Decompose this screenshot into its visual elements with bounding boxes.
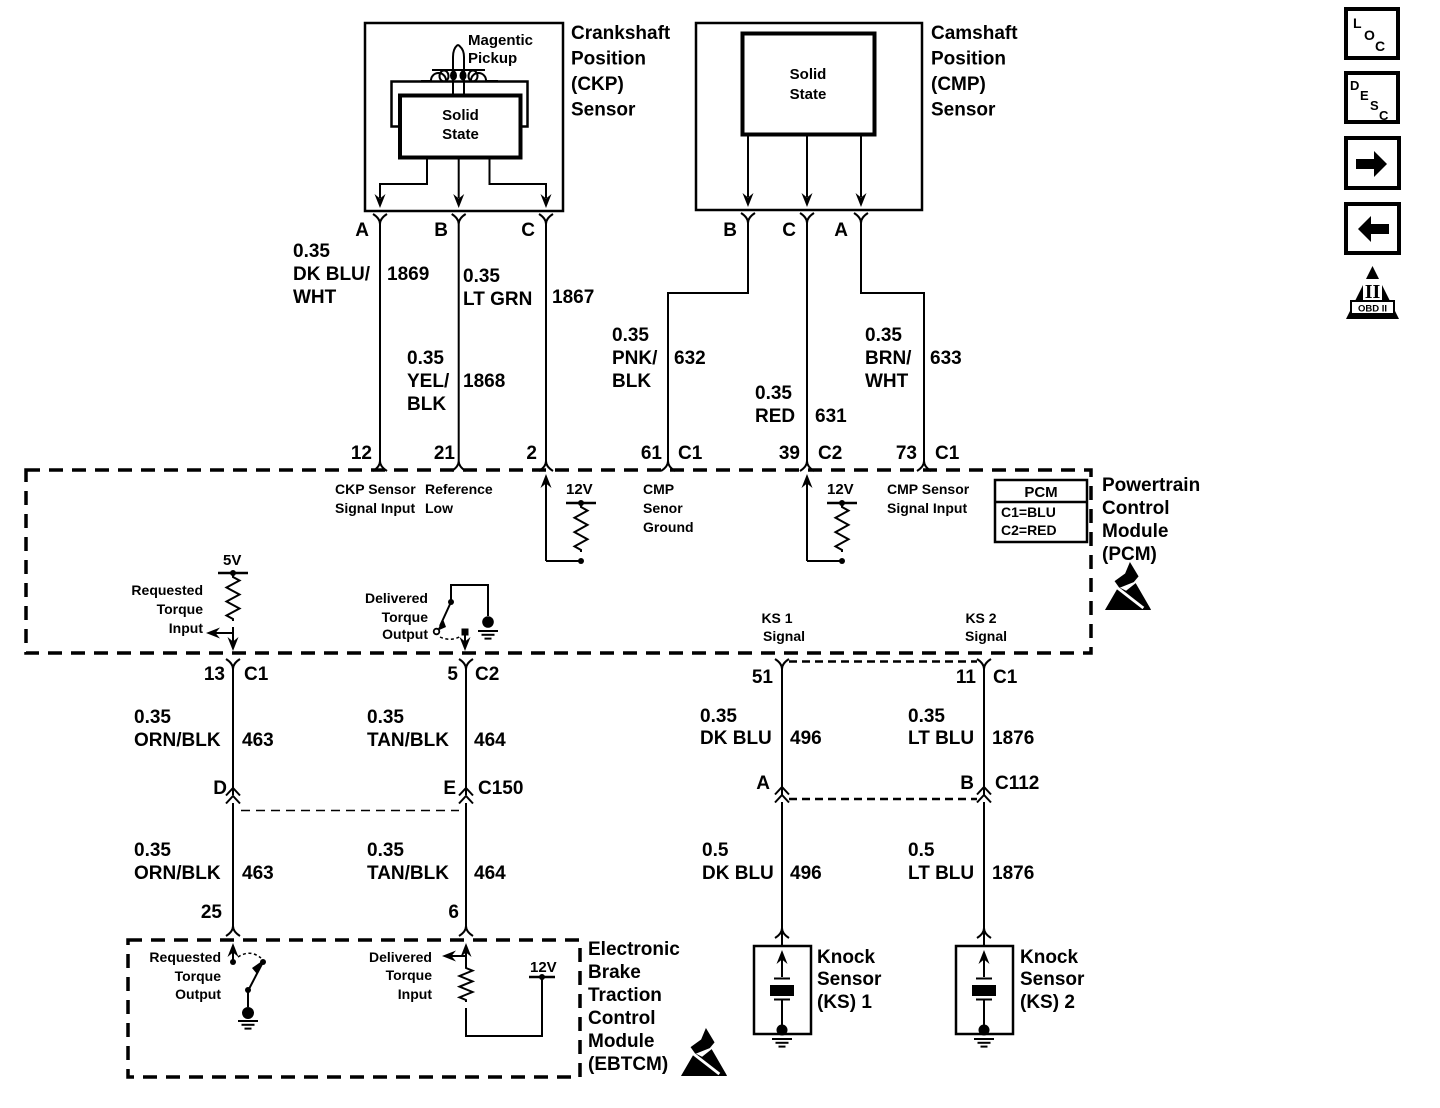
svg-text:(CMP): (CMP) [931, 74, 986, 95]
svg-text:73: 73 [896, 443, 917, 464]
wire 496 DK BLU upper [781, 669, 783, 795]
svg-text:KS 2: KS 2 [965, 610, 996, 626]
svg-text:Torque: Torque [157, 601, 204, 617]
Knock Sensor KS2 box [956, 946, 1013, 1034]
svg-text:B: B [434, 220, 448, 241]
svg-text:39: 39 [779, 443, 800, 464]
wire 1869 DK BLU/WHT [379, 240, 381, 461]
svg-text:12V: 12V [566, 481, 593, 498]
svg-text:1876: 1876 [992, 728, 1034, 749]
svg-text:(KS) 1: (KS) 1 [817, 992, 872, 1013]
svg-text:WHT: WHT [865, 371, 909, 392]
connector C150 dashed line [241, 810, 459, 812]
svg-text:DK BLU: DK BLU [700, 728, 772, 749]
svg-text:Input: Input [398, 986, 433, 1002]
svg-text:A: A [355, 220, 369, 241]
pin 21 [452, 461, 466, 471]
svg-text:Module: Module [588, 1031, 655, 1052]
PCM connector legend box [995, 480, 1087, 542]
svg-text:Delivered: Delivered [369, 949, 432, 965]
svg-text:II: II [1365, 281, 1381, 303]
svg-text:0.35: 0.35 [463, 266, 500, 287]
svg-text:0.35: 0.35 [367, 707, 404, 728]
svg-text:BRN/: BRN/ [865, 348, 912, 369]
svg-text:Powertrain: Powertrain [1102, 475, 1200, 496]
svg-text:ORN/BLK: ORN/BLK [134, 730, 221, 751]
svg-text:(EBTCM): (EBTCM) [588, 1054, 668, 1075]
svg-text:C: C [1375, 38, 1385, 54]
CKP terminal B [452, 214, 466, 224]
svg-text:State: State [790, 86, 827, 103]
svg-text:LT BLU: LT BLU [908, 728, 974, 749]
svg-text:0.35: 0.35 [407, 348, 444, 369]
svg-text:C2: C2 [475, 664, 499, 685]
CKP terminal C [539, 214, 553, 224]
svg-text:TAN/BLK: TAN/BLK [367, 863, 449, 884]
CMP internal wire to terminal C [806, 134, 808, 197]
svg-text:1876: 1876 [992, 863, 1034, 884]
svg-text:633: 633 [930, 348, 962, 369]
svg-text:0.35: 0.35 [755, 383, 792, 404]
requested torque input arrow [215, 632, 233, 634]
LOC button [1346, 9, 1398, 58]
pin 13 C1 [226, 659, 240, 669]
svg-text:C2=RED: C2=RED [1001, 522, 1057, 538]
svg-text:2: 2 [526, 443, 537, 464]
svg-text:0.5: 0.5 [702, 840, 729, 861]
CKP terminal A [373, 214, 387, 224]
svg-text:Requested: Requested [149, 949, 221, 965]
svg-text:Solid: Solid [442, 107, 479, 124]
CMP sensor outer box [696, 23, 922, 210]
svg-text:25: 25 [201, 902, 223, 923]
KS inner dashed box [789, 660, 977, 663]
svg-text:Sensor: Sensor [817, 969, 882, 990]
svg-text:0.35: 0.35 [865, 325, 902, 346]
wire 633 BRN/WHT [861, 240, 924, 461]
svg-text:Requested: Requested [131, 582, 203, 598]
svg-text:0.35: 0.35 [134, 840, 171, 861]
pin 51 [775, 659, 789, 669]
svg-text:Output: Output [175, 986, 221, 1002]
DESC button [1346, 73, 1398, 122]
svg-text:Knock: Knock [1020, 947, 1079, 968]
svg-text:464: 464 [474, 863, 506, 884]
svg-text:Solid: Solid [790, 66, 827, 83]
KS1 connector fork [775, 928, 789, 938]
svg-text:S: S [1370, 98, 1379, 113]
svg-text:Torque: Torque [382, 609, 429, 625]
connector C112 terminal A [775, 787, 789, 795]
svg-text:1868: 1868 [463, 371, 505, 392]
svg-text:Signal Input: Signal Input [335, 500, 415, 516]
svg-text:61: 61 [641, 443, 663, 464]
PCM dashed box [26, 470, 1091, 653]
svg-text:CMP Sensor: CMP Sensor [887, 481, 970, 497]
svg-text:Camshaft: Camshaft [931, 23, 1018, 44]
wire to 12V in EBTCM [466, 978, 542, 1036]
connector C150 terminal D [226, 788, 240, 796]
pin 61 C1 [661, 461, 675, 471]
svg-text:496: 496 [790, 728, 822, 749]
wire 632 PNK/BLK [668, 240, 748, 461]
svg-text:0.35: 0.35 [367, 840, 404, 861]
requested torque output switch [228, 943, 239, 957]
svg-text:5: 5 [447, 664, 458, 685]
svg-text:0.35: 0.35 [612, 325, 649, 346]
wire 1867 LT GRN [545, 240, 547, 461]
magnetic pickup coil and core [453, 45, 464, 95]
KS1 piezo element [777, 950, 788, 964]
svg-text:Sensor: Sensor [571, 100, 636, 121]
delivered torque input resistor [461, 943, 472, 957]
svg-text:BLK: BLK [612, 371, 651, 392]
svg-text:Knock: Knock [817, 947, 876, 968]
svg-text:496: 496 [790, 863, 822, 884]
svg-text:1867: 1867 [552, 287, 594, 308]
svg-text:Senor: Senor [643, 500, 683, 516]
svg-text:Traction: Traction [588, 985, 662, 1006]
requested torque output ground [242, 1007, 254, 1019]
svg-text:(PCM): (PCM) [1102, 544, 1157, 565]
OBD II symbol [1346, 266, 1399, 319]
12V pull-up at pin 39 [802, 474, 813, 488]
svg-text:Magentic: Magentic [468, 32, 533, 49]
pin 11 C1 [977, 659, 991, 669]
svg-text:Ground: Ground [643, 519, 694, 535]
svg-text:C1: C1 [678, 443, 703, 464]
svg-text:1869: 1869 [387, 264, 429, 285]
pin 39 C2 [800, 461, 814, 471]
svg-text:C: C [521, 220, 535, 241]
wire 464 TAN/BLK upper [465, 669, 467, 795]
svg-text:C: C [1379, 108, 1389, 123]
Knock Sensor KS1 box [754, 946, 811, 1034]
svg-text:LT GRN: LT GRN [463, 289, 532, 310]
wire 464 TAN/BLK lower [465, 803, 467, 926]
svg-text:Control: Control [588, 1008, 656, 1029]
CKP solid state box [400, 96, 521, 158]
svg-text:Signal: Signal [763, 628, 805, 644]
EBTCM ESD symbol [681, 1028, 727, 1076]
svg-text:Control: Control [1102, 498, 1170, 519]
svg-text:13: 13 [204, 664, 225, 685]
svg-text:C1: C1 [244, 664, 269, 685]
svg-text:463: 463 [242, 730, 274, 751]
PCM ESD symbol [1105, 562, 1151, 610]
CKP internal wire to terminal B [458, 157, 460, 198]
svg-text:0.35: 0.35 [134, 707, 171, 728]
svg-text:12V: 12V [530, 959, 557, 976]
svg-text:L: L [1353, 15, 1362, 31]
svg-text:C150: C150 [478, 778, 523, 799]
svg-text:21: 21 [434, 443, 456, 464]
CMP terminal A [854, 213, 868, 223]
svg-text:C1=BLU: C1=BLU [1001, 504, 1056, 520]
CKP backing rectangle [392, 82, 528, 127]
wire 1868 YEL/BLK [458, 240, 460, 461]
svg-text:C: C [782, 220, 796, 241]
svg-text:Signal: Signal [965, 628, 1007, 644]
svg-text:O: O [1364, 27, 1375, 43]
CMP internal wire to terminal A [860, 134, 862, 197]
svg-text:12V: 12V [827, 481, 854, 498]
svg-text:Sensor: Sensor [931, 100, 996, 121]
svg-text:5V: 5V [223, 552, 241, 569]
svg-text:TAN/BLK: TAN/BLK [367, 730, 449, 751]
CKP internal wire to terminal C [490, 157, 547, 198]
svg-text:Position: Position [931, 49, 1006, 70]
svg-text:0.35: 0.35 [293, 241, 330, 262]
CKP sensor outer box [365, 23, 563, 211]
svg-text:RED: RED [755, 406, 795, 427]
pin 12 [373, 461, 387, 471]
svg-text:WHT: WHT [293, 287, 337, 308]
svg-text:KS 1: KS 1 [761, 610, 792, 626]
svg-text:Module: Module [1102, 521, 1169, 542]
svg-text:12: 12 [351, 443, 372, 464]
svg-text:Position: Position [571, 49, 646, 70]
svg-text:LT BLU: LT BLU [908, 863, 974, 884]
svg-text:C1: C1 [935, 443, 960, 464]
KS2 connector fork [977, 928, 991, 938]
CMP terminal B [741, 213, 755, 223]
svg-text:B: B [960, 773, 974, 794]
svg-text:0.35: 0.35 [908, 706, 945, 727]
svg-text:D: D [1350, 78, 1359, 93]
svg-text:464: 464 [474, 730, 506, 751]
pin 5 C2 [459, 659, 473, 669]
svg-text:6: 6 [448, 902, 459, 923]
wire 1876 LT BLU upper [983, 669, 985, 795]
svg-text:0.35: 0.35 [700, 706, 737, 727]
pin 6 [459, 926, 473, 936]
svg-text:E: E [1360, 88, 1369, 103]
svg-text:Signal Input: Signal Input [887, 500, 967, 516]
KS1 ground [777, 1025, 788, 1036]
svg-text:A: A [834, 220, 848, 241]
svg-text:11: 11 [956, 667, 977, 688]
svg-text:Crankshaft: Crankshaft [571, 23, 671, 44]
12V pull-up at pin 2 [541, 474, 552, 488]
wire 463 ORN/BLK lower [232, 803, 234, 926]
svg-text:E: E [443, 778, 456, 799]
svg-text:DK BLU/: DK BLU/ [293, 264, 371, 285]
svg-text:Brake: Brake [588, 962, 641, 983]
svg-text:D: D [213, 778, 227, 799]
svg-text:51: 51 [752, 667, 774, 688]
svg-text:BLK: BLK [407, 394, 446, 415]
svg-text:Torque: Torque [386, 967, 433, 983]
svg-text:631: 631 [815, 406, 847, 427]
KS2 piezo element [979, 950, 990, 964]
connector C150 terminal E [459, 788, 473, 796]
svg-text:YEL/: YEL/ [407, 371, 450, 392]
wire 496 DK BLU lower [781, 802, 783, 946]
pin 2 [539, 461, 553, 471]
svg-text:Low: Low [425, 500, 453, 516]
svg-text:0.5: 0.5 [908, 840, 935, 861]
CMP solid state box [743, 34, 875, 135]
svg-text:CKP Sensor: CKP Sensor [335, 481, 416, 497]
svg-text:Pickup: Pickup [468, 50, 517, 67]
svg-text:Delivered: Delivered [365, 590, 428, 606]
svg-text:DK BLU: DK BLU [702, 863, 774, 884]
svg-text:CMP: CMP [643, 481, 674, 497]
svg-text:(CKP): (CKP) [571, 74, 624, 95]
back arrow button [1346, 204, 1399, 253]
pin 73 C1 [917, 461, 931, 471]
svg-text:B: B [723, 220, 737, 241]
svg-text:Reference: Reference [425, 481, 493, 497]
svg-text:ORN/BLK: ORN/BLK [134, 863, 221, 884]
svg-text:A: A [756, 773, 770, 794]
svg-text:Sensor: Sensor [1020, 969, 1085, 990]
wire 463 ORN/BLK upper [232, 669, 234, 795]
svg-text:Input: Input [169, 620, 204, 636]
CMP internal wire to terminal B [747, 134, 749, 197]
svg-text:C1: C1 [993, 667, 1018, 688]
svg-text:(KS) 2: (KS) 2 [1020, 992, 1075, 1013]
KS2 ground [979, 1025, 990, 1036]
connector C112 terminal B [977, 787, 991, 795]
wire 1876 LT BLU lower [983, 802, 985, 946]
switch ground [482, 616, 494, 628]
svg-text:State: State [442, 126, 479, 143]
svg-text:C112: C112 [995, 773, 1039, 794]
svg-text:Output: Output [382, 626, 428, 642]
CMP terminal C [800, 213, 814, 223]
svg-text:Electronic: Electronic [588, 939, 680, 960]
svg-text:C2: C2 [818, 443, 842, 464]
svg-text:OBD II: OBD II [1358, 304, 1387, 315]
pin 25 [226, 926, 240, 936]
wire 631 RED [806, 240, 808, 461]
svg-text:PNK/: PNK/ [612, 348, 658, 369]
EBTCM dashed box [128, 940, 580, 1077]
svg-text:632: 632 [674, 348, 706, 369]
forward arrow button [1346, 138, 1399, 188]
svg-text:463: 463 [242, 863, 274, 884]
svg-text:Torque: Torque [175, 968, 222, 984]
svg-text:PCM: PCM [1024, 484, 1057, 501]
CKP internal wire to terminal A [380, 157, 427, 198]
